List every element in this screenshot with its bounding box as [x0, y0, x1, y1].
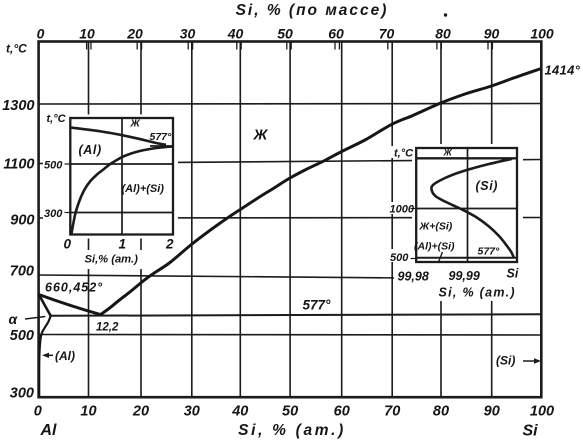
svg-text:20: 20: [132, 404, 149, 420]
inset1 solvus: [72, 147, 173, 234]
svg-text:90: 90: [484, 404, 500, 420]
svg-text:t,°C: t,°C: [394, 148, 414, 160]
svg-text:Al: Al: [40, 422, 58, 439]
inset2 retrograde solidus: [431, 159, 513, 258]
svg-text:660,452°: 660,452°: [45, 281, 103, 295]
svg-text:t,°C: t,°C: [47, 113, 67, 125]
svg-text:Si: Si: [522, 423, 538, 440]
svg-text:(Al): (Al): [55, 349, 75, 363]
svg-text:700: 700: [10, 264, 34, 280]
inset1 eutectic line: [150, 145, 173, 147]
eutectic 577 line: [50, 314, 542, 316]
svg-text:α: α: [9, 311, 19, 327]
svg-text:Si, % (ат.): Si, % (ат.): [238, 422, 346, 439]
svg-text:60: 60: [334, 404, 350, 420]
svg-text:70: 70: [379, 26, 395, 42]
svg-text:(Al): (Al): [79, 143, 102, 157]
svg-text:90: 90: [484, 26, 500, 42]
solvus (alpha): [39, 316, 51, 397]
svg-text:(Si): (Si): [476, 179, 499, 193]
svg-text:12,2: 12,2: [96, 322, 119, 334]
liquidus right branch: [101, 69, 542, 315]
svg-text:Ж+(Si): Ж+(Si): [419, 221, 453, 233]
svg-text:10: 10: [79, 26, 95, 42]
inset2 liquidus (top line): [416, 157, 517, 159]
svg-text:70: 70: [384, 404, 400, 420]
svg-text:(Al)+(Si): (Al)+(Si): [414, 241, 455, 253]
svg-text:Si, % (по массе): Si, % (по массе): [236, 2, 389, 19]
svg-text:0: 0: [64, 237, 72, 252]
svg-text:577°: 577°: [150, 131, 173, 143]
svg-text:500: 500: [44, 160, 63, 172]
svg-text:577°: 577°: [478, 246, 501, 258]
svg-text:1414°: 1414°: [545, 63, 581, 78]
svg-text:80: 80: [433, 404, 449, 420]
horizontal gridlines: [38, 104, 542, 336]
svg-text:1: 1: [119, 237, 127, 252]
inset plot 2: Si-rich corner (99.98-100 at.% Si): [388, 144, 524, 301]
svg-text:20: 20: [126, 26, 143, 42]
svg-text:0: 0: [34, 404, 42, 420]
svg-text:99,98: 99,98: [398, 270, 429, 284]
vertical gridlines: [89, 42, 492, 397]
svg-text:500: 500: [390, 252, 409, 264]
svg-text:900: 900: [10, 213, 34, 229]
inset plot 1: Al-rich corner (0-2 at.% Si): [43, 113, 178, 269]
svg-text:99,99: 99,99: [449, 269, 480, 283]
svg-text:0: 0: [37, 26, 45, 42]
svg-text:60: 60: [328, 26, 344, 42]
svg-text:1300: 1300: [2, 98, 34, 114]
svg-text:10: 10: [80, 404, 96, 420]
left axis labels: [2, 98, 34, 402]
top axis labels: [37, 2, 554, 42]
tick below: [439, 252, 443, 262]
svg-text:Ж: Ж: [443, 148, 453, 158]
svg-text:Si,% (ат.): Si,% (ат.): [85, 254, 139, 266]
solidus left: [39, 295, 51, 316]
top ticks: [87, 42, 493, 50]
bottom axis labels: [34, 404, 554, 440]
svg-text:1000: 1000: [390, 204, 415, 216]
svg-text:300: 300: [44, 208, 63, 220]
main phase boundary curves: [39, 69, 542, 397]
svg-text:30: 30: [184, 404, 200, 420]
svg-text:40: 40: [231, 404, 248, 420]
svg-text:100: 100: [530, 26, 554, 42]
svg-text:t,°C: t,°C: [6, 42, 27, 56]
svg-text:(Si): (Si): [496, 354, 515, 368]
svg-text:Si: Si: [507, 267, 519, 281]
svg-text:Si, % (ат.): Si, % (ат.): [439, 286, 516, 300]
svg-text:577°: 577°: [303, 298, 332, 313]
svg-text:80: 80: [435, 26, 451, 42]
svg-text:Ж: Ж: [130, 119, 141, 130]
svg-text:300: 300: [10, 386, 34, 402]
svg-text:50: 50: [282, 404, 298, 420]
svg-text:50: 50: [277, 26, 293, 42]
svg-text:500: 500: [10, 328, 34, 344]
svg-text:Ж: Ж: [253, 127, 269, 144]
svg-text:(Al)+(Si): (Al)+(Si): [122, 183, 165, 195]
svg-text:40: 40: [227, 26, 244, 42]
svg-text:100: 100: [530, 404, 554, 420]
svg-text:2: 2: [165, 237, 174, 252]
inset1 liquidus: [70, 128, 166, 145]
svg-text:1100: 1100: [3, 157, 34, 173]
svg-text:30: 30: [180, 26, 196, 42]
inset2 eutectic 577 line: [416, 257, 517, 259]
liquidus left branch: [39, 295, 101, 315]
